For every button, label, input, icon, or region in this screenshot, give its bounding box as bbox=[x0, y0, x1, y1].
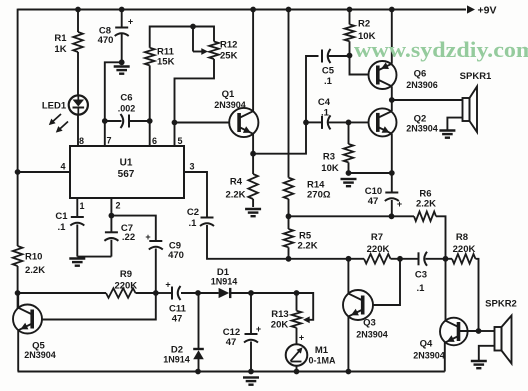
node junction pin5 Q1 base bbox=[172, 120, 178, 126]
svg-text:2N3904: 2N3904 bbox=[214, 100, 246, 110]
wire Q5 emitter down bbox=[17, 330, 19, 371]
svg-text:C2: C2 bbox=[187, 207, 199, 218]
resistor R10 bbox=[13, 246, 23, 266]
wire R12 to pin5 bbox=[175, 59, 215, 146]
potentiometer R12 bbox=[209, 42, 219, 60]
wire node to C3 bbox=[400, 258, 418, 260]
svg-text:.1: .1 bbox=[58, 222, 67, 233]
wire D1 to C12 node bbox=[230, 292, 251, 294]
svg-text:1K: 1K bbox=[54, 44, 66, 55]
node R7 label bbox=[367, 232, 390, 255]
svg-text:3: 3 bbox=[189, 162, 194, 172]
svg-text:4: 4 bbox=[60, 162, 65, 172]
node junction Q6 Q2 output bbox=[389, 97, 395, 103]
wire R2 to C5 node bbox=[349, 41, 351, 55]
node R12 wiper arrow bbox=[193, 27, 208, 55]
node junction R12 wiper link bbox=[190, 24, 196, 30]
svg-text:SPKR2: SPKR2 bbox=[485, 299, 517, 310]
node D2 label bbox=[163, 345, 190, 365]
wire ground link C1 C7 bbox=[77, 256, 111, 258]
node C10 label bbox=[365, 186, 382, 207]
resistor R4 bbox=[248, 174, 258, 199]
svg-text:.1: .1 bbox=[321, 108, 330, 119]
node R8 label bbox=[453, 232, 476, 255]
wire pin2 down bbox=[110, 198, 112, 216]
resistor R5 bbox=[284, 229, 294, 247]
wire C8 to ground node bbox=[121, 34, 123, 62]
svg-text:+9V: +9V bbox=[478, 5, 497, 17]
transistor Q6 bbox=[369, 61, 397, 89]
svg-text:R8: R8 bbox=[456, 232, 468, 243]
node pin 7 label bbox=[106, 136, 111, 146]
capacitor C5 bbox=[322, 49, 331, 63]
node C2 label bbox=[187, 207, 199, 229]
transistor Q4 bbox=[440, 318, 468, 346]
svg-text:470: 470 bbox=[98, 35, 114, 46]
svg-text:2N3906: 2N3906 bbox=[406, 80, 438, 90]
wire Q5 base bbox=[42, 293, 156, 320]
op-amp U1 567 tone decoder box bbox=[70, 146, 184, 198]
node Q6 label bbox=[406, 69, 438, 91]
svg-text:www.sydzdiy.com: www.sydzdiy.com bbox=[354, 37, 528, 62]
wire node to Q2 base bbox=[349, 121, 369, 123]
meter M1 0-1MA bbox=[286, 333, 308, 366]
wire R9 node to C11 bbox=[156, 292, 172, 294]
svg-text:+: + bbox=[299, 333, 304, 343]
node junction pin2 C7 C9 bbox=[109, 213, 115, 219]
node R9 label bbox=[114, 269, 137, 292]
svg-text:470: 470 bbox=[168, 250, 184, 261]
svg-text:Q4: Q4 bbox=[420, 339, 433, 350]
wire +9V top rail bbox=[18, 9, 466, 11]
svg-text:.22: .22 bbox=[122, 232, 135, 243]
node R5 label bbox=[298, 231, 318, 252]
wire R13 to M1 bbox=[296, 328, 298, 345]
svg-text:8: 8 bbox=[79, 136, 84, 146]
node R2 label bbox=[358, 19, 376, 43]
wire C6 right bbox=[130, 120, 150, 122]
wire R5 to audio line bbox=[288, 247, 290, 258]
node Q1 label bbox=[214, 89, 246, 110]
node junction D1 C12 bbox=[248, 290, 254, 296]
capacitor C4 bbox=[322, 115, 331, 129]
wire node to R5 bbox=[288, 216, 290, 229]
wire left rail to R9 bbox=[18, 292, 106, 294]
wire node to SPKR2 bbox=[479, 330, 495, 332]
wire Q3 node to R7 bbox=[349, 258, 365, 260]
svg-text:2.2K: 2.2K bbox=[225, 190, 245, 201]
resistor R1 bbox=[73, 32, 83, 52]
wire Q2 emitter node to C10 bbox=[391, 173, 393, 193]
node Q4 label bbox=[413, 339, 445, 361]
svg-text:47: 47 bbox=[226, 337, 237, 348]
wire R9 to C9 node bbox=[136, 292, 156, 294]
node C1 label bbox=[55, 211, 68, 233]
node junction rail Q1 bbox=[250, 7, 256, 13]
node junction riser C4 bbox=[303, 120, 309, 126]
resistor R14 bbox=[284, 178, 294, 199]
svg-text:10K: 10K bbox=[321, 163, 339, 174]
wire R14 to node bbox=[288, 199, 290, 216]
wire R8 to Q4 base riser bbox=[476, 259, 479, 331]
wire emitter node to C4/C5 riser bbox=[253, 56, 318, 154]
wire C8 node to pin7 bbox=[105, 62, 122, 146]
wire R6 to node A bbox=[436, 216, 446, 258]
capacitor C7 bbox=[104, 232, 118, 241]
svg-text:2N3904: 2N3904 bbox=[406, 124, 438, 134]
node pin 6 label bbox=[152, 136, 157, 146]
node junction rail R2 bbox=[347, 7, 353, 13]
node C12 label bbox=[223, 327, 240, 348]
wire left rail upper bbox=[17, 9, 19, 246]
resistor R7 bbox=[364, 254, 391, 264]
svg-text:0-1MA: 0-1MA bbox=[308, 356, 336, 366]
svg-text:LED1: LED1 bbox=[42, 101, 67, 112]
wire riser to C4 bbox=[306, 121, 321, 123]
wire SPKR1 to ground bbox=[447, 118, 462, 130]
svg-text:+: + bbox=[165, 280, 170, 290]
wire node A to Q4 collector bbox=[445, 259, 447, 321]
wire Q3 base bbox=[373, 259, 400, 305]
node R3 label bbox=[321, 152, 339, 175]
svg-text:.002: .002 bbox=[118, 104, 136, 114]
node junction D2 bottom rail bbox=[195, 369, 201, 375]
svg-text:R7: R7 bbox=[371, 232, 383, 243]
ground below R3 bbox=[341, 179, 357, 186]
wire LED1 to pin8 bbox=[77, 115, 79, 147]
ground below C1 bbox=[69, 259, 85, 266]
node pin 5 label bbox=[177, 136, 182, 146]
node LED1 label bbox=[42, 101, 67, 112]
wire node to D1 bbox=[198, 292, 219, 294]
wire Q6 emitter to rail bbox=[391, 10, 393, 64]
node junction R3 ground bbox=[346, 170, 352, 176]
wire C1 to ground corner bbox=[76, 225, 78, 257]
svg-text:20K: 20K bbox=[271, 320, 289, 331]
wire R11 to pin6 bbox=[149, 65, 151, 146]
wire C5 node to Q6 base bbox=[350, 56, 369, 75]
node junction R7 C3 Q3base bbox=[397, 256, 403, 262]
svg-text:R10: R10 bbox=[25, 252, 42, 263]
node pin 1 label bbox=[79, 201, 84, 211]
node junction rail C8 bbox=[119, 7, 125, 13]
svg-text:R4: R4 bbox=[230, 177, 243, 188]
resistor R6 bbox=[414, 212, 436, 222]
svg-text:C4: C4 bbox=[318, 97, 331, 108]
node top rail arrowhead to +9V bbox=[467, 5, 475, 13]
svg-text:1: 1 bbox=[79, 201, 84, 211]
svg-text:Q6: Q6 bbox=[414, 69, 427, 80]
svg-text:5: 5 bbox=[177, 136, 182, 146]
svg-text:.1: .1 bbox=[324, 76, 333, 87]
node junction rail Q6 bbox=[389, 7, 395, 13]
wire C12 node to R13 node bbox=[251, 292, 297, 294]
svg-text:2: 2 bbox=[115, 201, 120, 211]
svg-text:2N3904: 2N3904 bbox=[413, 351, 445, 361]
svg-text:+: + bbox=[128, 17, 133, 27]
svg-text:Q1: Q1 bbox=[222, 89, 235, 100]
node junction R2 C5 bbox=[347, 53, 353, 59]
node R6 label bbox=[416, 189, 436, 210]
wire C7 to ground link bbox=[110, 240, 112, 257]
svg-text:47: 47 bbox=[172, 314, 183, 325]
wire C10 to R6 line bbox=[391, 200, 393, 216]
node junction left rail R9 bbox=[15, 290, 21, 296]
svg-text:R1: R1 bbox=[54, 33, 67, 44]
diode D2 bbox=[193, 349, 204, 359]
transistor Q3 bbox=[343, 290, 373, 320]
resistor R3 bbox=[344, 144, 354, 162]
node junction C10 R6 line bbox=[389, 213, 395, 219]
svg-text:+: + bbox=[397, 199, 402, 209]
wire left rail mid bbox=[17, 266, 19, 308]
wire rail to R14 bbox=[288, 10, 290, 178]
node watermark www.sydzdiy.com bbox=[354, 37, 528, 62]
node LED1 emission arrows bbox=[49, 114, 68, 133]
svg-text:C5: C5 bbox=[322, 66, 335, 77]
svg-text:SPKR1: SPKR1 bbox=[460, 71, 492, 82]
wire C6 left bbox=[105, 120, 122, 122]
transistor Q5 bbox=[13, 305, 42, 334]
wire pin1 down bbox=[76, 198, 78, 217]
wire pin3 right and down bbox=[184, 172, 207, 218]
node R1 label bbox=[54, 33, 67, 55]
wire C3 to node A bbox=[426, 258, 446, 260]
node C4 label bbox=[318, 97, 331, 119]
node junction R5 audio line bbox=[286, 256, 292, 262]
wire node to R4 bbox=[252, 154, 254, 174]
resistor R9 bbox=[106, 288, 136, 298]
wire C11 to D2 node bbox=[181, 292, 198, 294]
node C8 label bbox=[98, 26, 114, 47]
wire pin4 to left rail bbox=[18, 171, 70, 173]
svg-text:220K: 220K bbox=[114, 281, 137, 292]
transistor Q2 bbox=[369, 108, 397, 136]
node R13 wiper arrow bbox=[297, 293, 314, 323]
node M1 label bbox=[308, 345, 336, 366]
wire Q3 emitter down bbox=[347, 317, 349, 372]
svg-text:+: + bbox=[145, 232, 150, 242]
node junction A C3 R6 R8 Q4coll bbox=[443, 256, 449, 262]
wire R13 node down bbox=[296, 293, 298, 311]
node junction Q4 base SPKR2 bbox=[476, 328, 482, 334]
svg-text:1N914: 1N914 bbox=[163, 355, 190, 365]
node junction C11 D2 D1 bbox=[195, 290, 201, 296]
capacitor C3 bbox=[419, 252, 428, 266]
svg-text:47: 47 bbox=[368, 196, 379, 207]
wire Q3 collector up bbox=[347, 259, 349, 294]
wire C9 to R9 line bbox=[155, 249, 157, 294]
wire Q1 collector to rail bbox=[252, 10, 254, 112]
capacitor C1 bbox=[70, 217, 84, 226]
node junction Q2 emitter bbox=[389, 170, 395, 176]
node junction Q3 bottom rail bbox=[346, 369, 352, 375]
capacitor C6 bbox=[121, 114, 130, 128]
svg-text:.1: .1 bbox=[417, 283, 426, 294]
speaker SPKR2 bbox=[495, 316, 512, 364]
capacitor C2 bbox=[200, 218, 214, 227]
node R4 label bbox=[225, 177, 245, 201]
node junction left rail pin4 bbox=[15, 169, 21, 175]
speaker SPKR1 bbox=[463, 87, 478, 133]
wire audio line R5 to Q3 bbox=[289, 258, 349, 260]
resistor R2 bbox=[345, 24, 355, 41]
capacitor C11 bbox=[165, 280, 180, 301]
svg-text:2.2K: 2.2K bbox=[298, 241, 318, 252]
wire Q6 collector to output node bbox=[391, 86, 393, 100]
ground below C8 bbox=[114, 67, 130, 74]
svg-text:567: 567 bbox=[118, 169, 135, 180]
node junction M1 bottom rail bbox=[294, 369, 300, 375]
wire node A to R8 bbox=[446, 258, 453, 260]
node junction C8 ground bbox=[119, 59, 125, 65]
wire D2 to bottom rail bbox=[198, 359, 200, 372]
node C3 label bbox=[415, 270, 427, 295]
node C6 label bbox=[118, 93, 136, 114]
wire R1 to LED1 bbox=[77, 52, 79, 96]
wire R14 node to C10 node bbox=[289, 215, 392, 217]
ground below R4 bbox=[245, 209, 261, 216]
svg-text:2N3904: 2N3904 bbox=[356, 330, 388, 340]
wire C4 node to R3 bbox=[348, 122, 350, 144]
wire C12 node down bbox=[250, 293, 252, 334]
wire D2 node down bbox=[198, 293, 200, 349]
wire R7 to Q3 base node bbox=[391, 258, 401, 260]
wire pin2 node to C9 riser bbox=[111, 216, 155, 241]
svg-text:R12: R12 bbox=[220, 40, 237, 51]
wire rail to R1 bbox=[77, 10, 79, 33]
wire Q4 emitter down bbox=[444, 342, 446, 371]
wire R11 top link bbox=[150, 27, 214, 48]
wire bottom rail bbox=[18, 371, 445, 373]
svg-text:R3: R3 bbox=[323, 152, 335, 163]
svg-text:6: 6 bbox=[152, 136, 157, 146]
node +9V label bbox=[478, 5, 497, 17]
wire rail to C8 bbox=[121, 10, 123, 28]
node R14 label bbox=[307, 180, 331, 201]
svg-text:+: + bbox=[256, 324, 261, 334]
transistor Q1 bbox=[229, 108, 258, 137]
node junction C9 R9 Q5base bbox=[153, 290, 159, 296]
svg-text:2.2K: 2.2K bbox=[416, 199, 436, 210]
node junction C12 bottom rail bbox=[248, 369, 254, 375]
resistor R11 bbox=[145, 48, 155, 66]
capacitor C10 bbox=[385, 193, 402, 210]
node junction Q1 emitter R4 bbox=[250, 151, 256, 157]
node junction R14 R5 bbox=[286, 213, 292, 219]
diode D1 bbox=[219, 288, 231, 298]
node junction C4 Q2 base R3 bbox=[346, 120, 352, 126]
wire R3 node to Q2 emitter node bbox=[349, 172, 392, 174]
svg-text:C3: C3 bbox=[415, 270, 427, 281]
node U1 label bbox=[118, 158, 135, 181]
svg-text:.1: .1 bbox=[189, 218, 198, 229]
svg-text:7: 7 bbox=[106, 136, 111, 146]
node C7 label bbox=[121, 223, 135, 243]
svg-text:220K: 220K bbox=[453, 244, 476, 255]
node C11 label bbox=[169, 304, 187, 325]
svg-text:R9: R9 bbox=[120, 269, 132, 280]
node SPKR2 label bbox=[485, 299, 517, 310]
svg-text:Q3: Q3 bbox=[363, 318, 376, 329]
wire Q5 collector up bbox=[17, 293, 19, 308]
ground below SPKR1 bbox=[439, 131, 455, 138]
LED LED1 bbox=[69, 95, 88, 114]
node Q2 label bbox=[406, 114, 438, 134]
node junction pin6 C6 bbox=[147, 118, 153, 124]
wire node to C7 bbox=[110, 216, 112, 233]
svg-text:2.2K: 2.2K bbox=[25, 265, 45, 276]
node pin 4 label bbox=[60, 162, 65, 172]
resistor R8 bbox=[452, 254, 476, 264]
node C5 label bbox=[322, 66, 335, 88]
node Q5 label bbox=[24, 341, 56, 361]
node pin 2 label bbox=[115, 201, 120, 211]
node C9 label bbox=[168, 241, 184, 262]
node junction pin7 C6 bbox=[102, 118, 108, 124]
node SPKR1 label bbox=[460, 71, 492, 82]
capacitor C12 bbox=[244, 324, 261, 343]
wire C2 down to audio line bbox=[207, 225, 289, 259]
wire C5 right to node bbox=[329, 55, 350, 57]
node junction Q3 collector line bbox=[346, 256, 352, 262]
wire R4 to ground bbox=[252, 199, 254, 207]
wire rail to R2 bbox=[349, 10, 351, 25]
node D1 label bbox=[211, 267, 238, 287]
svg-text:R13: R13 bbox=[271, 309, 288, 320]
ground below SPKR2 bbox=[471, 361, 487, 368]
node R11 label bbox=[157, 47, 175, 68]
capacitor C9 bbox=[145, 232, 162, 250]
svg-text:25K: 25K bbox=[220, 51, 238, 62]
svg-text:M1: M1 bbox=[315, 345, 329, 356]
svg-text:270Ω: 270Ω bbox=[307, 190, 331, 201]
node junction R13 top bbox=[294, 290, 300, 296]
wire Q1 emitter down bbox=[252, 134, 254, 154]
wire SPKR2 to ground bbox=[479, 346, 495, 361]
wire output node to SPKR1 bbox=[392, 99, 463, 101]
wire M1 to bottom rail bbox=[296, 366, 298, 372]
wire Q4 base to node bbox=[460, 330, 479, 332]
svg-text:220K: 220K bbox=[367, 244, 390, 255]
node junction rail R1 bbox=[75, 7, 81, 13]
node R10 label bbox=[25, 252, 45, 277]
wire Q2 emitter down bbox=[391, 134, 393, 173]
svg-text:R2: R2 bbox=[358, 19, 370, 30]
svg-text:2N3904: 2N3904 bbox=[24, 350, 56, 360]
node junction rail R14 bbox=[286, 7, 292, 13]
wire Q1 base bbox=[175, 122, 230, 124]
wire R3 to ground node bbox=[348, 162, 350, 173]
svg-text:C6: C6 bbox=[120, 93, 132, 104]
node Q3 label bbox=[356, 318, 388, 340]
svg-text:1N914: 1N914 bbox=[211, 277, 238, 287]
ground below bottom rail bbox=[243, 378, 259, 385]
wire C12 to bottom rail bbox=[250, 342, 252, 372]
svg-text:15K: 15K bbox=[157, 57, 175, 68]
node R13 label bbox=[271, 309, 289, 331]
wire C4 to node bbox=[329, 121, 349, 123]
svg-text:C1: C1 bbox=[55, 211, 68, 222]
potentiometer R13 bbox=[292, 311, 302, 328]
node pin 8 label bbox=[79, 136, 84, 146]
node pin 3 label bbox=[189, 162, 194, 172]
svg-text:U1: U1 bbox=[120, 158, 133, 169]
wire to R6 bbox=[392, 215, 415, 217]
capacitor C8 bbox=[115, 17, 133, 37]
wire Q2 collector to output node bbox=[391, 100, 393, 111]
node R12 label bbox=[220, 40, 238, 62]
